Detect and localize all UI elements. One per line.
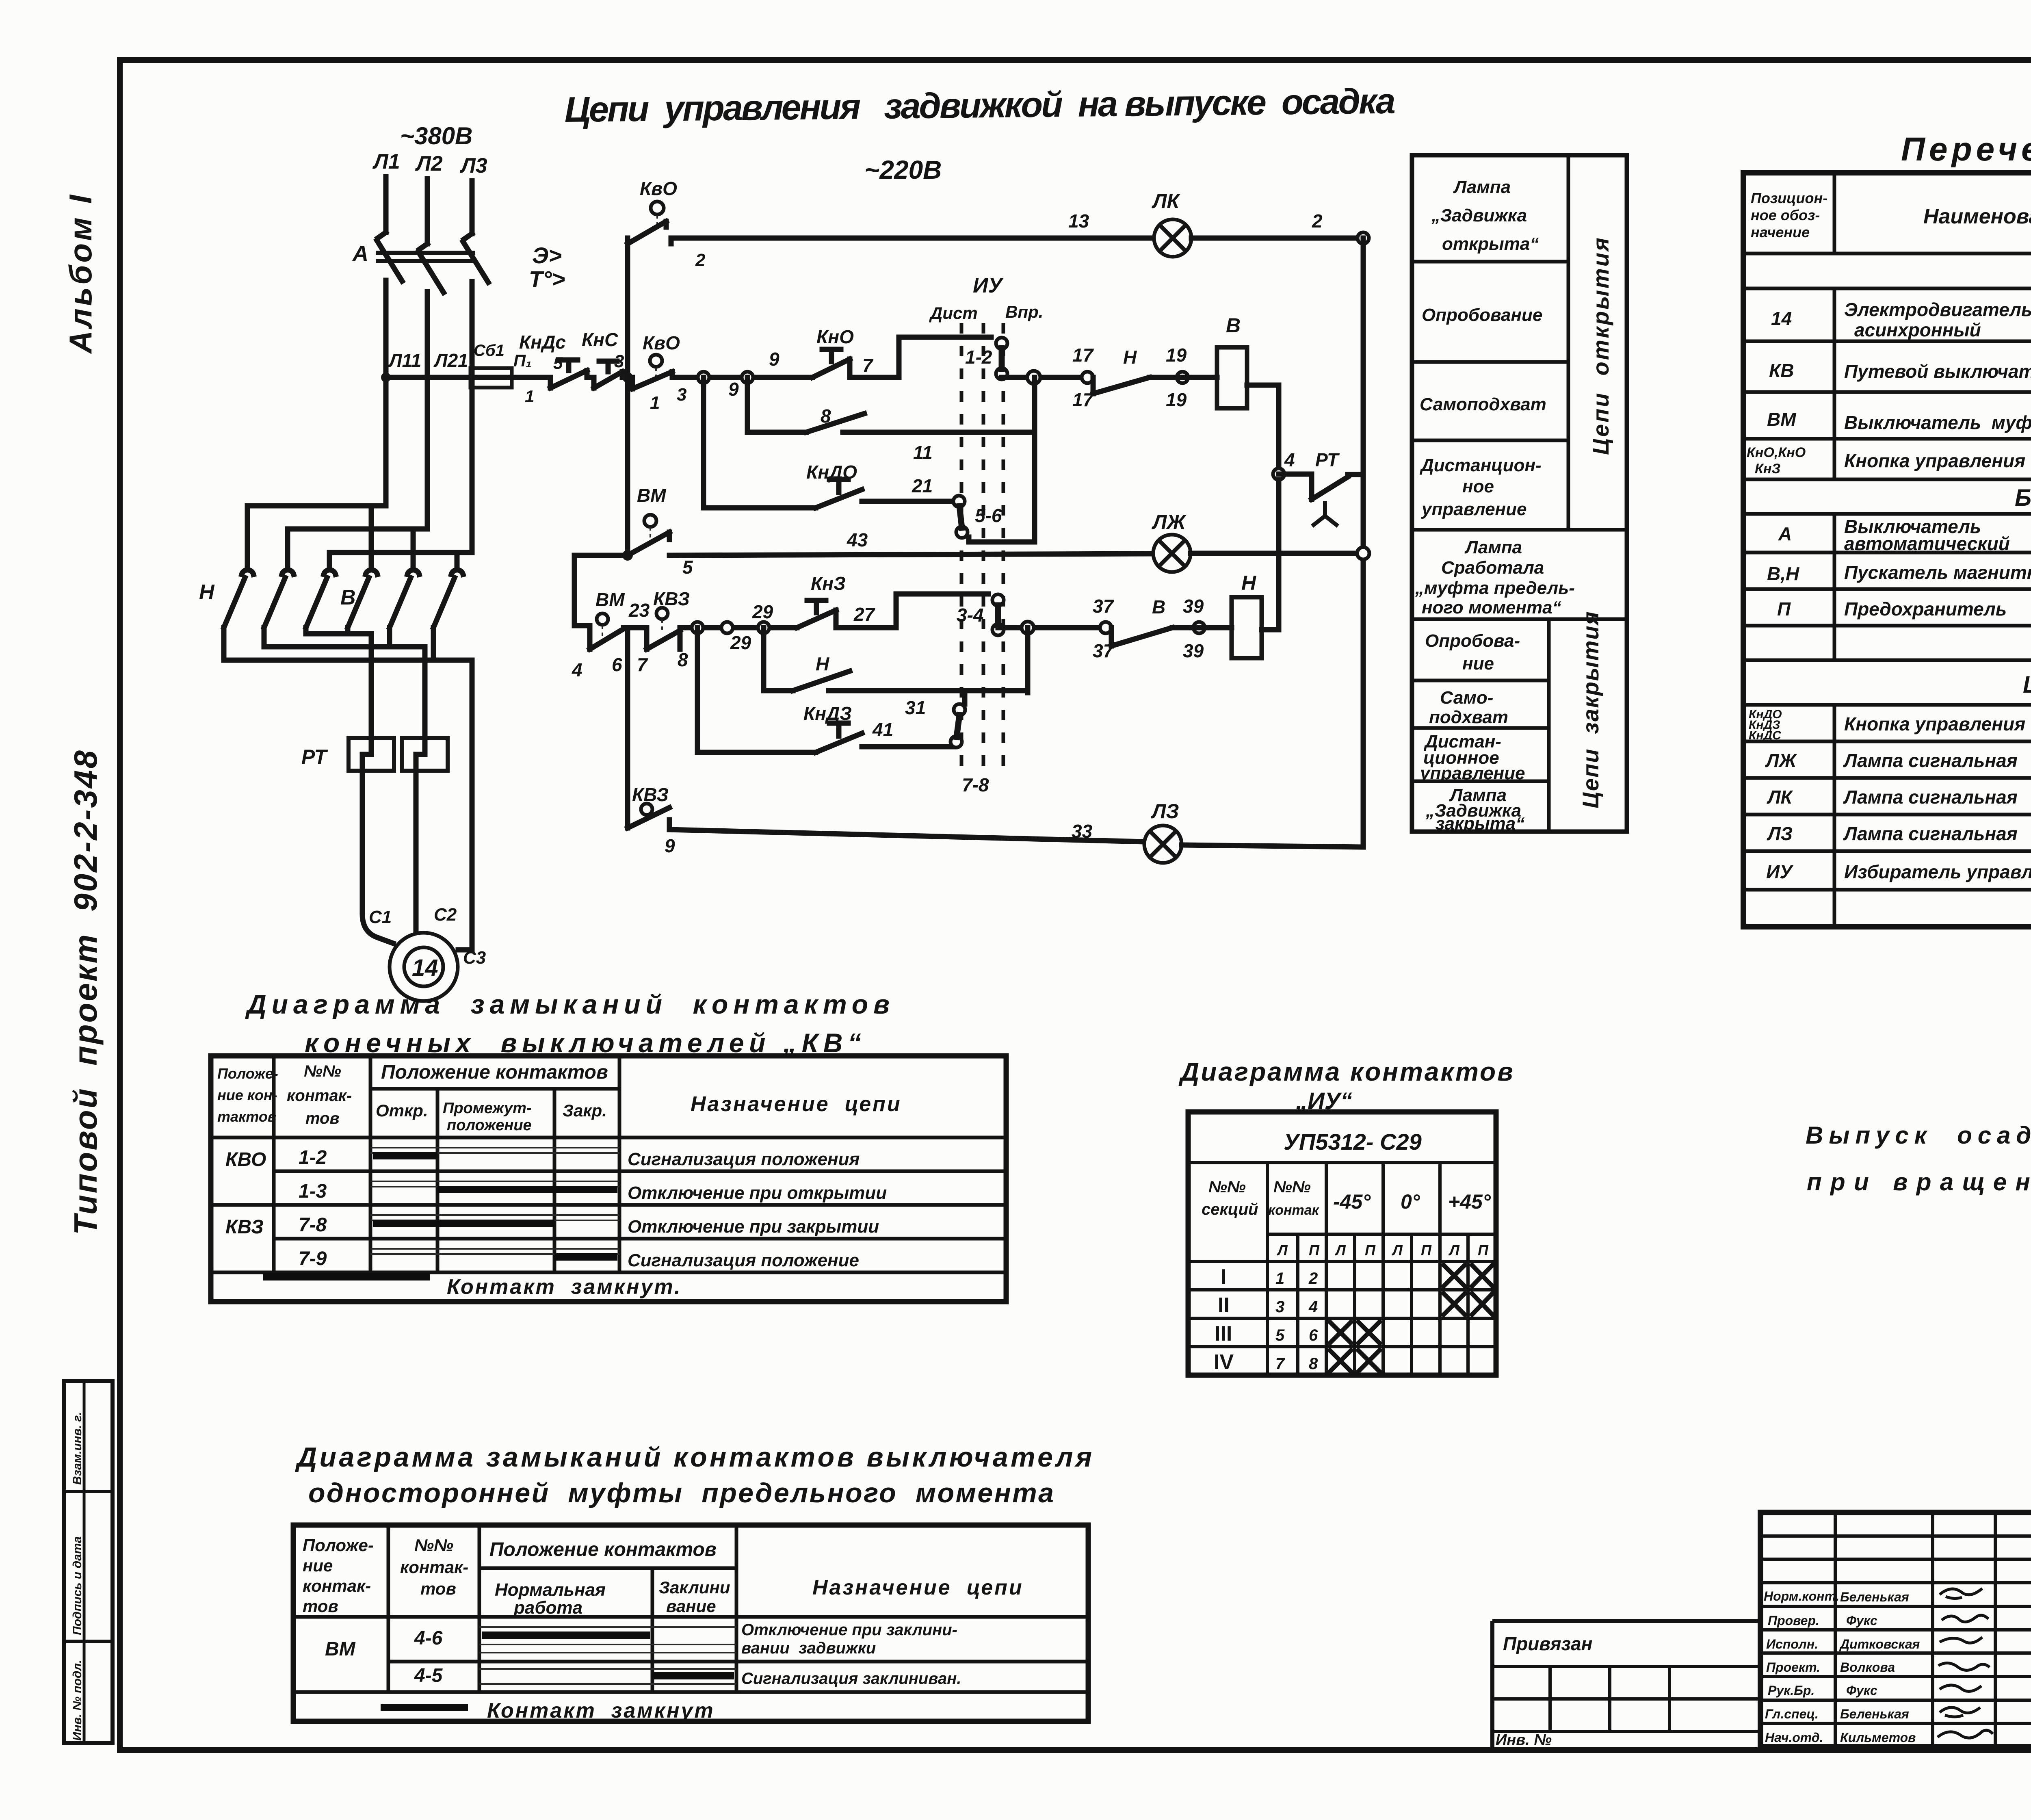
contactor Н pole 1 (224, 570, 253, 628)
svg-text:Контакт замкнут.: Контакт замкнут. (447, 1275, 682, 1299)
node 9a (698, 372, 709, 383)
svg-text:КВЗ: КВЗ (632, 784, 669, 805)
svg-text:Блок управления: Блок управления (2015, 485, 2031, 511)
svg-text:2: 2 (1308, 1270, 1318, 1287)
wire L21 (425, 292, 430, 529)
node 9b (742, 372, 753, 383)
svg-text:РТ: РТ (1315, 449, 1340, 470)
svg-text:1: 1 (650, 393, 660, 413)
svg-text:Цепи управления задвижкой: Цепи управления задвижкой на выпуске оса… (564, 80, 1399, 130)
svg-text:11: 11 (913, 442, 933, 463)
svg-text:4: 4 (1308, 1298, 1318, 1316)
svg-text:3-4: 3-4 (957, 604, 983, 626)
svg-text:1: 1 (525, 387, 534, 406)
svg-text:5: 5 (1275, 1326, 1285, 1344)
limit switch КВЗ contact 7-9 (628, 804, 669, 828)
svg-text:ИУ: ИУ (1766, 861, 1794, 882)
svg-text:Гл.спец.: Гл.спец. (1765, 1707, 1819, 1721)
svg-text:Сигнализация заклиниван.: Сигнализация заклиниван. (741, 1670, 961, 1688)
svg-text:Кнопка управления: Кнопка управления (1844, 713, 2025, 734)
svg-text:КвО: КвО (640, 178, 677, 199)
svg-text:контак-: контак- (303, 1576, 371, 1595)
button КнО (open command) (812, 349, 899, 377)
svg-text:-45°: -45° (1333, 1190, 1371, 1213)
svg-text:Положение контактов: Положение контактов (489, 1539, 717, 1560)
svg-text:управление: управление (1421, 499, 1526, 519)
svg-text:ВМ: ВМ (595, 589, 625, 610)
svg-text:Сигнализация положения: Сигнализация положения (628, 1149, 860, 1169)
svg-text:Л: Л (1448, 1242, 1460, 1259)
button КнДЗ (remote close) (816, 723, 862, 752)
wire ВМ feed L (574, 555, 628, 649)
wire КВЗ lamp branch (628, 628, 647, 828)
svg-text:КВЗ: КВЗ (653, 588, 690, 609)
svg-text:33: 33 (1072, 821, 1093, 842)
svg-text:1-2: 1-2 (965, 347, 992, 368)
svg-text:39: 39 (1183, 640, 1204, 661)
svg-text:контак: контак (1268, 1202, 1320, 1218)
svg-text:Наименование: Наименование (1923, 205, 2031, 228)
svg-text:Диаграмма замыканий контактов: Диаграмма замыканий контактов выключател… (295, 1442, 1092, 1473)
svg-text:Лампа сигнальная: Лампа сигнальная (1843, 786, 2018, 808)
feed bar phase2 (288, 529, 427, 569)
svg-text:ние: ние (303, 1556, 333, 1575)
svg-text:23: 23 (628, 600, 650, 621)
wire phase L3 (470, 181, 475, 234)
svg-text:39: 39 (1183, 596, 1204, 617)
svg-text:ЛЖ: ЛЖ (1152, 511, 1187, 533)
wire L31 (470, 282, 475, 552)
svg-text:Сработала: Сработала (1441, 558, 1544, 578)
svg-text:Инв. №: Инв. № (1496, 1731, 1552, 1748)
svg-text:Альбом I: Альбом I (63, 193, 98, 354)
svg-text:Н: Н (816, 653, 829, 674)
svg-text:Лампа: Лампа (1453, 177, 1511, 197)
svg-text:КВО: КВО (225, 1149, 266, 1170)
node 29c (758, 622, 769, 633)
svg-text:С2: С2 (434, 905, 457, 925)
wire КнДО branch (704, 377, 816, 508)
svg-text:Н: Н (1123, 347, 1137, 368)
svg-text:тов: тов (420, 1579, 456, 1598)
svg-text:Н: Н (1241, 572, 1256, 594)
svg-text:Фукс: Фукс (1846, 1683, 1877, 1698)
svg-text:УП5312- С29: УП5312- С29 (1284, 1129, 1422, 1155)
wire L11 (383, 280, 389, 506)
svg-text:Предохранитель: Предохранитель (1844, 598, 2007, 620)
svg-text:вание: вание (666, 1597, 716, 1616)
selector УУ contact 3-4 (992, 594, 1004, 635)
aux contact Н (NC 17-19) (1082, 372, 1150, 394)
wire self-hold В branch (747, 377, 806, 432)
svg-text:КВЗ: КВЗ (225, 1216, 264, 1238)
selector УУ contact 1-2 (996, 338, 1007, 379)
lamp ЛЗ (1144, 825, 1182, 863)
wire 27 step (896, 594, 988, 628)
svg-text:Самоподхват: Самоподхват (1420, 394, 1546, 414)
svg-text:Типовой проект 902-2-348: Типовой проект 902-2-348 (67, 749, 104, 1235)
svg-text:Позицион-: Позицион- (1751, 190, 1827, 206)
svg-text:П: П (1777, 598, 1791, 620)
svg-text:21: 21 (912, 475, 933, 496)
svg-text:3: 3 (677, 385, 686, 405)
svg-text:Нач.отд.: Нач.отд. (1765, 1730, 1823, 1745)
svg-text:4: 4 (572, 659, 582, 680)
svg-text:подхват: подхват (1429, 707, 1508, 727)
wire 11 (843, 430, 1035, 435)
svg-text:Диаграмма замыканий контакто: Диаграмма замыканий контактов (245, 989, 890, 1019)
svg-text:положение: положение (447, 1117, 532, 1134)
svg-text:Лампа: Лампа (1464, 537, 1522, 557)
svg-text:0°: 0° (1401, 1190, 1420, 1213)
svg-text:Л21: Л21 (433, 350, 468, 371)
svg-text:4: 4 (1284, 449, 1295, 470)
svg-text:7: 7 (637, 654, 648, 675)
svg-text:7-8: 7-8 (299, 1214, 327, 1236)
svg-text:Отключение при открытии: Отключение при открытии (628, 1183, 887, 1203)
svg-text:6: 6 (1309, 1326, 1318, 1344)
limit switch КВЗ contact (closing row) (647, 608, 680, 649)
signatures squiggles (1938, 1588, 1993, 1738)
svg-text:ЛК: ЛК (1152, 190, 1180, 212)
node 37 junction (1022, 622, 1034, 634)
limit switch КВО contact 1-2 (628, 201, 666, 244)
svg-text:8: 8 (678, 649, 688, 670)
svg-text:№№: №№ (414, 1536, 453, 1555)
svg-text:Л11: Л11 (388, 350, 421, 371)
svg-text:управление: управление (1419, 763, 1525, 783)
svg-text:Дитковская: Дитковская (1839, 1637, 1920, 1651)
svg-text:8: 8 (1309, 1355, 1318, 1373)
svg-text:КнДС: КнДС (1749, 729, 1782, 742)
wire 33 (lamp ЛЗ row) (669, 830, 1144, 842)
svg-text:III: III (1215, 1322, 1232, 1345)
svg-text:В: В (1226, 314, 1241, 337)
svg-text:П₁: П₁ (513, 351, 532, 370)
button КнДС (stop, NC) (550, 360, 587, 388)
svg-text:IV: IV (1214, 1350, 1234, 1374)
svg-text:I: I (1221, 1265, 1226, 1289)
svg-text:Проект.: Проект. (1766, 1660, 1820, 1675)
svg-text:КнО: КнО (816, 326, 854, 347)
svg-text:ЛЗ: ЛЗ (1151, 800, 1179, 823)
svg-text:А: А (1778, 523, 1792, 544)
node ЛЖ-bus junction (1357, 547, 1369, 559)
wire УУ close feed vertical (965, 628, 1028, 704)
svg-text:асинхронный: асинхронный (1854, 319, 1981, 340)
svg-text:ВМ: ВМ (1767, 409, 1797, 430)
selector УУ shaft line 2 (982, 323, 985, 772)
svg-text:Волкова: Волкова (1840, 1660, 1895, 1675)
svg-text:7-9: 7-9 (299, 1248, 327, 1270)
svg-text:Л: Л (1334, 1242, 1346, 1259)
thermal relay РТ release symbol (1314, 503, 1336, 525)
svg-text:Щит оператора: Щит оператора (2023, 672, 2031, 698)
feed bar phase3 (329, 552, 472, 569)
svg-text:43: 43 (847, 529, 868, 550)
lamp ЛЖ (1153, 535, 1191, 572)
svg-text:Норм.конт.: Норм.конт. (1764, 1589, 1839, 1603)
node 29a (692, 622, 703, 633)
junction phase L1 to control (381, 373, 391, 382)
svg-text:Цепи закрытия: Цепи закрытия (1578, 611, 1603, 808)
svg-text:тактов: тактов (217, 1108, 277, 1125)
svg-text:П: П (1365, 1242, 1376, 1259)
svg-text:Кильметов: Кильметов (1840, 1730, 1916, 1745)
svg-text:В: В (340, 586, 356, 609)
svg-text:Исполн.: Исполн. (1766, 1637, 1818, 1651)
svg-text:КВ: КВ (1769, 360, 1794, 381)
svg-text:Путевой выключатель: Путевой выключатель (1844, 361, 2031, 382)
switch ВМ contact (lamp row 43) (622, 515, 669, 561)
button КнДО (remote open) (816, 479, 862, 508)
svg-text:1: 1 (1275, 1270, 1284, 1287)
thermal relay РТ heater 1 (349, 738, 394, 771)
svg-text:Назначение цепи: Назначение цепи (691, 1092, 902, 1116)
svg-text:работа: работа (513, 1598, 582, 1618)
svg-text:Перечень элементов: Перечень элементов (1901, 131, 2031, 168)
svg-text:Пускатель магнитный: Пускатель магнитный (1844, 562, 2031, 583)
contactor В pole 3 (433, 570, 463, 628)
svg-text:+45°: +45° (1448, 1190, 1491, 1213)
svg-text:контак-: контак- (287, 1087, 352, 1105)
svg-text:Само-: Само- (1440, 688, 1493, 708)
svg-text:Фукс: Фукс (1846, 1613, 1877, 1628)
svg-text:„Задвижка: „Задвижка (1431, 206, 1527, 225)
button КнС (stop, NC) (594, 361, 622, 388)
svg-text:ВМ: ВМ (325, 1638, 356, 1660)
motor line C1 lower (362, 771, 393, 943)
svg-text:Заклини: Заклини (659, 1578, 730, 1597)
contactor В pole 2 (390, 570, 419, 628)
svg-text:41: 41 (872, 719, 893, 740)
selector УУ shaft line 3 (1002, 323, 1005, 772)
node 29b (721, 622, 733, 633)
svg-text:тов: тов (305, 1109, 340, 1127)
aux contact В (self hold) (806, 414, 864, 432)
wire coil В to node 4 (1247, 385, 1279, 474)
contactor Н pole 2 (264, 570, 294, 628)
wire coil Н to node 4 line (1262, 480, 1279, 630)
svg-text:вании задвижки: вании задвижки (741, 1639, 876, 1657)
fuse П1 (470, 368, 512, 388)
svg-text:29: 29 (730, 632, 751, 653)
svg-text:КнО,КнО: КнО,КнО (1747, 445, 1806, 460)
svg-text:29: 29 (752, 601, 773, 622)
svg-text:№№: №№ (304, 1062, 341, 1080)
svg-text:13: 13 (1068, 210, 1089, 232)
svg-text:Диаграмма контактов: Диаграмма контактов (1178, 1057, 1515, 1086)
svg-text:14: 14 (1771, 308, 1792, 329)
svg-text:КнЗ: КнЗ (1755, 461, 1780, 477)
wire УУ open feed vertical (969, 377, 1035, 542)
wire 31 (829, 688, 1028, 693)
svg-text:Привязан: Привязан (1503, 1633, 1592, 1654)
motor line C2 lower (414, 771, 419, 933)
svg-text:Закр.: Закр. (563, 1101, 607, 1120)
node 19 (1177, 372, 1188, 383)
wire phase L2 (425, 179, 430, 244)
thermal relay РТ contact (1279, 474, 1363, 499)
svg-text:Провер.: Провер. (1768, 1613, 1819, 1628)
svg-text:Сб1: Сб1 (474, 342, 505, 360)
svg-text:тов: тов (303, 1597, 338, 1616)
contactor В pole 1 (348, 570, 377, 628)
wire 21 (862, 499, 953, 504)
svg-text:КвО: КвО (643, 332, 680, 353)
circuit breaker A pole 2 (418, 244, 444, 292)
aux contact В (NC 37-39) (1100, 622, 1172, 646)
X marks УУ table (1328, 1263, 1494, 1373)
motor 14 (asynchronous) (390, 933, 458, 1001)
svg-text:ЛЗ: ЛЗ (1767, 823, 1793, 844)
svg-text:С3: С3 (463, 948, 486, 968)
svg-text:односторонней муфты предельн: односторонней муфты предельного момента (308, 1478, 1054, 1508)
svg-text:РТ: РТ (301, 745, 328, 768)
svg-text:секций: секций (1202, 1200, 1258, 1218)
selector УУ contact 5-6 (953, 496, 968, 538)
svg-text:Выключатель муфты: Выключатель муфты (1844, 412, 2031, 433)
thermal relay РТ heater 2 (402, 738, 448, 771)
svg-text:1-2: 1-2 (299, 1147, 327, 1168)
svg-text:начение: начение (1751, 224, 1810, 240)
svg-text:КнДс: КнДс (519, 331, 566, 353)
feed bar phase1 (247, 506, 386, 569)
svg-text:Беленькая: Беленькая (1840, 1590, 1909, 1604)
svg-text:17: 17 (1072, 344, 1094, 366)
svg-text:Л1: Л1 (372, 150, 400, 173)
svg-text:ное: ное (1462, 477, 1494, 496)
crossover bar a (306, 628, 371, 634)
wire control feed (386, 375, 474, 380)
svg-text:Кнопка управления: Кнопка управления (1844, 450, 2025, 471)
svg-text:Н: Н (199, 581, 215, 604)
svg-text:19: 19 (1166, 389, 1187, 410)
svg-text:9: 9 (728, 379, 739, 400)
circuit breaker A pole 1 (377, 232, 402, 281)
svg-text:Л: Л (1391, 1242, 1403, 1259)
svg-text:Отключение при закрытии: Отключение при закрытии (628, 1217, 879, 1237)
svg-text:ние: ние (1462, 654, 1494, 674)
svg-text:„муфта предель-: „муфта предель- (1415, 578, 1575, 598)
svg-text:Лампа сигнальная: Лампа сигнальная (1843, 823, 2018, 844)
svg-text:ВМ: ВМ (637, 485, 667, 506)
svg-text:Впр.: Впр. (1005, 302, 1043, 321)
switch ВМ contact 4-6 (590, 613, 624, 649)
svg-text:Л: Л (1276, 1242, 1288, 1259)
contactor coil Н (1232, 597, 1262, 658)
svg-text:В: В (1152, 596, 1165, 617)
svg-text:автоматический: автоматический (1844, 533, 2010, 554)
svg-text:4-5: 4-5 (414, 1665, 443, 1686)
svg-text:3: 3 (1275, 1298, 1284, 1316)
wire self-hold Н branch (764, 628, 793, 691)
svg-text:ного момента“: ного момента“ (1422, 598, 1561, 617)
svg-text:19: 19 (1166, 344, 1187, 366)
svg-text:Цепи открытия: Цепи открытия (1588, 236, 1613, 455)
svg-text:А: А (352, 241, 368, 266)
svg-text:Рук.Бр.: Рук.Бр. (1768, 1683, 1814, 1698)
wire left control bus (625, 238, 630, 555)
contactor coil В (1217, 347, 1247, 408)
svg-text:Положе-: Положе- (303, 1536, 374, 1555)
svg-text:КнЗ: КнЗ (811, 573, 846, 594)
svg-text:Опробова-: Опробова- (1425, 631, 1520, 651)
svg-text:ное обоз-: ное обоз- (1751, 207, 1820, 223)
wire 43 (lamp ЛЖ row) (669, 554, 1153, 555)
circuit breaker A linkage bar (378, 253, 473, 261)
svg-text:9: 9 (769, 349, 779, 370)
svg-text:37: 37 (1093, 596, 1115, 617)
svg-text:14: 14 (412, 955, 438, 981)
wire КнДЗ branch (697, 628, 816, 752)
svg-text:7-8: 7-8 (962, 774, 989, 795)
contactor Н pole 3 (306, 570, 336, 628)
svg-text:Избиратель управления: Избиратель управления (1844, 861, 2031, 882)
svg-text:КнС: КнС (582, 329, 618, 350)
svg-text:Взам.инв. г.: Взам.инв. г. (71, 1412, 84, 1485)
svg-text:1-3: 1-3 (299, 1181, 327, 1202)
svg-text:П: П (1309, 1242, 1320, 1259)
svg-text:ние кон-: ние кон- (217, 1087, 277, 1103)
node 3 (622, 372, 633, 383)
wire 13 (lamp open row) (671, 238, 1154, 244)
svg-text:Откр.: Откр. (376, 1101, 428, 1120)
motor line C1 upper (369, 634, 374, 738)
selector УУ shaft line 1 (960, 323, 964, 772)
svg-text:Положе-: Положе- (217, 1065, 278, 1082)
svg-text:Л3: Л3 (459, 154, 487, 178)
svg-text:Дист: Дист (929, 303, 978, 323)
svg-text:В,Н: В,Н (1767, 563, 1799, 584)
motor line C3 (458, 660, 472, 950)
svg-text:7: 7 (1275, 1355, 1285, 1373)
svg-text:5: 5 (553, 353, 563, 373)
svg-text:~380В: ~380В (400, 122, 472, 149)
svg-text:II: II (1218, 1293, 1230, 1317)
svg-text:4-6: 4-6 (414, 1627, 443, 1649)
svg-text:Сигнализация положение: Сигнализация положение (628, 1250, 859, 1270)
limit switch КВО contact 1-3 (632, 355, 672, 389)
svg-text:П: П (1478, 1242, 1489, 1259)
svg-text:Инв. № подл.: Инв. № подл. (71, 1660, 84, 1741)
svg-text:№№: №№ (1273, 1178, 1311, 1196)
contact closed bars KV table (373, 1152, 437, 1159)
svg-text:ЛЖ: ЛЖ (1765, 750, 1797, 771)
svg-text:Беленькая: Беленькая (1840, 1707, 1909, 1721)
svg-text:С1: С1 (369, 907, 392, 927)
wire 41 (862, 744, 955, 750)
svg-text:Опробование: Опробование (1422, 305, 1542, 325)
wire right return bus (1361, 238, 1366, 847)
svg-text:ИУ: ИУ (973, 274, 1004, 297)
svg-text:~220В: ~220В (864, 155, 942, 184)
lamp ЛК (1154, 219, 1191, 257)
node 17 junction (1027, 371, 1040, 384)
svg-text:Э>: Э> (532, 243, 562, 268)
svg-text:Назначение цепи: Назначение цепи (812, 1576, 1024, 1599)
svg-text:27: 27 (853, 604, 876, 625)
svg-text:2: 2 (1312, 210, 1323, 232)
svg-text:3: 3 (614, 351, 624, 371)
svg-text:Отключение при заклини-: Отключение при заклини- (741, 1621, 957, 1639)
node 39 (1193, 622, 1205, 633)
aux contact Н (self hold) (793, 671, 850, 691)
wire 7 step up (899, 337, 991, 377)
svg-text:№№: №№ (1208, 1178, 1246, 1196)
svg-text:2: 2 (695, 250, 706, 270)
crossover bar c (224, 628, 472, 660)
